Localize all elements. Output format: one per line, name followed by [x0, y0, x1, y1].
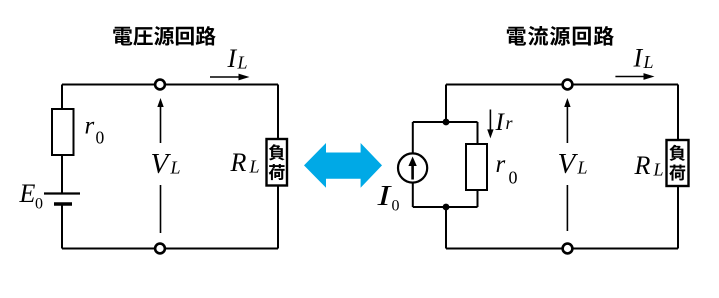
svg-text:L: L	[170, 158, 181, 178]
svg-text:I: I	[376, 180, 392, 212]
svg-text:0: 0	[509, 168, 518, 188]
svg-text:r: r	[85, 113, 95, 140]
svg-text:I: I	[227, 44, 238, 73]
svg-text:E: E	[19, 179, 36, 208]
svg-text:L: L	[237, 53, 248, 73]
svg-text:L: L	[643, 52, 654, 72]
svg-text:r: r	[496, 151, 506, 178]
svg-text:L: L	[653, 160, 664, 180]
svg-text:0: 0	[35, 196, 43, 213]
svg-text:0: 0	[96, 128, 105, 148]
svg-text:R: R	[230, 148, 247, 177]
svg-text:0: 0	[392, 198, 400, 215]
svg-text:I: I	[633, 44, 644, 73]
svg-text:R: R	[634, 151, 651, 180]
svg-text:L: L	[577, 158, 588, 178]
svg-text:r: r	[506, 113, 514, 133]
svg-text:L: L	[249, 157, 260, 177]
